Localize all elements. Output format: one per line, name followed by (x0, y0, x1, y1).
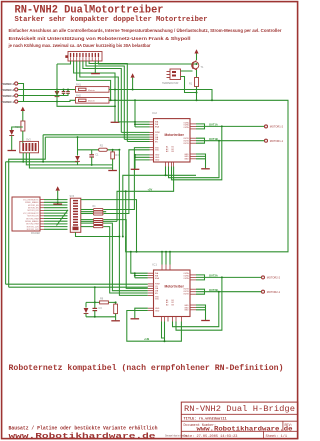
5V subckt2 rail (86, 287, 116, 304)
junction bus2 tap (94, 286, 96, 288)
capacitor C3 (93, 302, 103, 316)
diode D1 (55, 90, 60, 102)
svg-text:POWER-1: POWER-1 (1, 100, 14, 104)
svg-text:MOTOR2_PWM: MOTOR2_PWM (26, 224, 39, 226)
terminal X2-3 (1, 94, 18, 98)
wire SV2 pin1 (22, 153, 24, 162)
ground GND LED (8, 150, 17, 152)
wire R8 short row (81, 220, 117, 222)
svg-text:Roboternetz kompatibel (nach e: Roboternetz kompatibel (nach ermpfohlene… (9, 364, 284, 373)
junction rail R1 (196, 99, 198, 101)
supply arrow VCC 5V (131, 73, 135, 90)
svg-text:SENSE_ENABLE: SENSE_ENABLE (25, 220, 39, 223)
svg-text:Sheet: 1/1: Sheet: 1/1 (266, 434, 288, 439)
wire bus chain A (6, 135, 78, 284)
terminal X2-4 (1, 100, 18, 104)
svg-text:MOTOR2-2: MOTOR2-2 (267, 276, 281, 280)
junction h (165, 251, 167, 253)
wire SV2 pin3 (29, 153, 112, 168)
resistor R4 (93, 206, 104, 210)
wire SV2 pin2 subckt rail (26, 153, 77, 165)
ground GND subckt2 (94, 316, 120, 321)
svg-text:OUT1A: OUT1A (209, 123, 218, 127)
wire IC2 in group1 (118, 121, 149, 123)
wire SV1 pin4 bundle (80, 61, 119, 122)
wires IC3 to SV3 rows (44, 200, 68, 230)
svg-text:Bausatz / Platine oder bestück: Bausatz / Platine oder bestückte Variant… (9, 424, 159, 431)
svg-text:SPEED_ENABLE: SPEED_ENABLE (25, 201, 39, 204)
wire subckt bottom rail (78, 164, 113, 166)
supply arrow VCC T1 (194, 49, 198, 60)
junction subckt R3 top (112, 149, 114, 151)
junction b (134, 123, 136, 125)
svg-text:OUT1B: OUT1B (209, 137, 218, 141)
wire 5V feed down (119, 150, 147, 296)
wire IC2 gnd comb right (196, 154, 206, 168)
IC1 top pin stubs (162, 265, 170, 271)
svg-text:Motortr: Motortr (88, 89, 95, 92)
IC2 left pin stubs (150, 122, 154, 160)
svg-text:RN-DEF: RN-DEF (31, 232, 41, 235)
resistor R12 (114, 304, 118, 317)
junction cap b (67, 89, 69, 91)
svg-text:Motortr: Motortr (88, 100, 95, 103)
wires IC1 top to rail (162, 252, 170, 265)
junction sense pin (165, 174, 167, 176)
temperature sensor box (162, 69, 181, 85)
transistor T1 (192, 60, 204, 70)
svg-text:RN-VNH2 Dual H-Bridge: RN-VNH2 Dual H-Bridge (184, 404, 295, 414)
junction VCC row (57, 199, 59, 201)
svg-text:MOTOR2-1: MOTOR2-1 (267, 290, 281, 294)
svg-text:OUT2A: OUT2A (209, 274, 218, 278)
IC2 right pin stubs (190, 124, 196, 159)
resistor R3 (111, 152, 119, 165)
wire IC2 5V pin down (117, 167, 174, 252)
zener diode D4 (84, 302, 89, 316)
ground GND below SV1 (91, 73, 100, 75)
wire diagonal crossover (57, 210, 69, 226)
wire temp to T1 (181, 71, 197, 93)
wire bus chain B (9, 137, 46, 287)
wire terminal3 to caps (18, 95, 64, 97)
svg-text:RN2: RN2 (76, 95, 81, 98)
wire IC2 gnd pins (135, 155, 150, 169)
svg-text:POWER-4: POWER-4 (1, 82, 14, 86)
junction j (164, 340, 166, 342)
wires SV3 right rows (81, 210, 93, 227)
resistor R13 (94, 222, 104, 224)
wire IC2 pin EN (127, 141, 149, 143)
wire SV1 pin6 bundle (86, 61, 124, 139)
wire bus1 to IC1 (6, 283, 148, 285)
IC3 right pin stubs (40, 200, 44, 230)
junction chain rail (114, 99, 116, 101)
wire U loop taps (162, 322, 165, 342)
junction INA rail (130, 251, 132, 253)
svg-text:MOTOR1_PWM: MOTOR1_PWM (26, 218, 39, 220)
wire T1 emitter to R1 (196, 70, 198, 78)
wire OUT1B feedback (169, 141, 220, 178)
wire OUT2A comb (196, 275, 261, 280)
svg-text:POWER-3: POWER-3 (1, 88, 14, 92)
svg-text:GND: GND (184, 159, 189, 161)
junction i (169, 251, 171, 253)
IC1 left pin stubs (148, 273, 154, 310)
svg-text:+5V: +5V (148, 188, 153, 192)
resistor network RN1 (76, 84, 110, 93)
terminal MOTOR1-1 (265, 139, 284, 143)
svg-text:OUTB: OUTB (183, 143, 189, 145)
wire IC2 bottom sense (123, 167, 196, 237)
wire IC1 gnd left (135, 308, 148, 318)
wire aux horizontal (57, 102, 115, 107)
resistor R2 (99, 145, 108, 152)
wire main VS rail (109, 100, 288, 252)
svg-text:Starker sehr kompakter doppelt: Starker sehr kompakter doppelter Motortr… (15, 16, 208, 24)
svg-text:MOTOR1-2: MOTOR1-2 (270, 125, 284, 129)
junction sense corridor (122, 236, 124, 238)
wire SV3 bottom down (76, 232, 120, 236)
svg-text:MOTOR2_CUR: MOTOR2_CUR (27, 229, 40, 231)
svg-text:MOTOR1_CUR: MOTOR1_CUR (27, 226, 40, 228)
connector SV1 (65, 52, 102, 62)
wire SV1 pin2 to ground chain (74, 61, 115, 122)
IC2 bottom pin stubs (166, 162, 174, 167)
IC1 bottom pin stubs (162, 317, 182, 322)
junction subckt tap (77, 136, 79, 138)
wire OUT2B feedback (173, 292, 219, 327)
svg-text:Entwickelt mit Unterstützung v: Entwickelt mit Unterstützung von Roboter… (9, 36, 191, 41)
junction OUT2B (218, 291, 220, 293)
connector SV2 (20, 139, 39, 153)
wire R5 to bundle (104, 223, 148, 291)
IC2 motor driver (152, 111, 190, 162)
junction 5V corridor (125, 190, 127, 192)
capacitor C1 (89, 150, 99, 165)
junction a (134, 121, 136, 123)
resistor R9 (100, 298, 109, 304)
junction GND row (57, 201, 59, 203)
svg-text:OUTA: OUTA (183, 126, 189, 129)
terminal MOTOR1-2 (265, 125, 284, 129)
svg-text:www.Robotikhardware.de: www.Robotikhardware.de (197, 425, 293, 432)
junction row ext (136, 251, 138, 253)
svg-text:SV3: SV3 (70, 195, 75, 198)
svg-text:VDD: VDD (155, 299, 160, 301)
wire R6 to bundle (104, 227, 148, 293)
pin header SV3 (70, 195, 81, 232)
junction p3 rail (110, 99, 112, 101)
svg-text:MOTOR1_DIR: MOTOR1_DIR (27, 210, 39, 212)
ground GND SV3 (53, 203, 62, 205)
wire IC2 pin DIB (124, 138, 149, 140)
svg-text:MOTOR1-1: MOTOR1-1 (270, 139, 284, 143)
wire vertical net V+ (56, 64, 58, 90)
wire IC1 INA feed (131, 252, 148, 273)
svg-text:MOTOR1_EN: MOTOR1_EN (28, 205, 39, 207)
junction e (134, 272, 136, 274)
resistor R6 (94, 213, 104, 215)
terminal MOTOR2-2 (262, 276, 281, 280)
svg-text:MOTOR2_DIR: MOTOR2_DIR (27, 216, 39, 218)
wire SV1 pin7 bundle (89, 61, 127, 142)
ground GND subckt1 (108, 165, 117, 171)
wire OUT2A feedback (176, 277, 222, 330)
wire OUT2B comb (196, 289, 261, 294)
ground GND mid (111, 121, 120, 123)
IC1 motor driver (152, 263, 190, 317)
wire subckt2 bottom (86, 316, 116, 318)
supply arrow VCC SV3 (56, 186, 60, 190)
junction f (134, 275, 136, 277)
junction subckt bottom (91, 164, 93, 166)
wire R5 short row (81, 211, 106, 213)
terminal X2-2 (1, 88, 18, 92)
resistor R8 (94, 220, 104, 222)
svg-text:A3: A3 (166, 150, 168, 153)
junction g (161, 251, 163, 253)
resistor network RN2 (76, 95, 110, 104)
wire IC1 top group (135, 273, 148, 278)
svg-text:OUTA: OUTA (183, 277, 189, 280)
svg-text:VCC_INT/RN-MOT1: VCC_INT/RN-MOT1 (23, 199, 38, 201)
wire terminal2 to RN1 (18, 89, 76, 91)
wire terminal4 to RN2 (18, 100, 76, 101)
wire OUT1A feedback (172, 126, 222, 179)
svg-text:VDD: VDD (155, 150, 160, 152)
supply arrow VCC left (21, 107, 25, 121)
svg-text:Motortreiber: Motortreiber (165, 133, 185, 137)
svg-text:B3: B3 (172, 304, 174, 306)
zener diode D2 (75, 150, 80, 165)
resistor R7 (94, 219, 104, 221)
svg-text:B3: B3 (172, 151, 174, 153)
svg-text:TITLE: rn_vnh2dual11: TITLE: rn_vnh2dual11 (184, 416, 227, 421)
svg-text:RN1: RN1 (76, 84, 81, 87)
wire OUT1B comb (196, 138, 264, 143)
ground GND IC2 left (131, 168, 140, 170)
junction 5V feed (118, 149, 120, 151)
svg-text:Date: 27.05.2005 14:03:23: Date: 27.05.2005 14:03:23 (184, 435, 238, 439)
wire R4 to bundle (104, 220, 148, 289)
svg-text:MOTOR2_EN: MOTOR2_EN (28, 208, 39, 210)
wire header row ext (81, 200, 137, 252)
resistor R10 (15, 121, 25, 143)
wire rail to IC2 pullups (134, 100, 136, 127)
wire SV1 pin3 to rail (77, 61, 111, 100)
wire bus2 to IC1 (9, 286, 148, 288)
svg-text:IC1: IC1 (152, 263, 157, 267)
wire VCC to SV3 (57, 191, 59, 204)
svg-text:GND: GND (184, 310, 189, 312)
svg-text:TEMPERATUR: TEMPERATUR (162, 82, 179, 85)
capacitor C5 (62, 90, 66, 96)
wire IC1 gnd comb right (196, 305, 206, 320)
junction SV3 bottom (118, 236, 120, 238)
wire IC2 pin CS long (43, 134, 149, 136)
wire IC2 pullup link (135, 122, 150, 127)
ground GND IC1 left (131, 318, 140, 320)
junction d (134, 156, 136, 158)
junction pin4/v57 (56, 101, 58, 103)
svg-text:POWER-2: POWER-2 (1, 94, 14, 98)
svg-text:RN-VNH2 DualMotortreiber: RN-VNH2 DualMotortreiber (15, 5, 164, 17)
svg-text:VCC_INT/RN-MOT2: VCC_INT/RN-MOT2 (23, 213, 38, 215)
wire IC2 VDD2 nested (104, 150, 150, 214)
wire OUT1A comb (196, 124, 264, 129)
junction OUT1A (221, 125, 223, 127)
resistor R14 (94, 226, 104, 228)
junction top right (196, 63, 198, 65)
IC1 right pin stubs (190, 275, 196, 310)
terminal X2-1 (1, 82, 18, 86)
terminal MOTOR2-1 (262, 290, 281, 294)
resistor R1 (189, 78, 199, 101)
svg-text:A3: A3 (166, 303, 168, 306)
wire terminal1 down (18, 84, 24, 102)
svg-text:+UB: +UB (144, 337, 149, 341)
ground GND IC2 right (201, 168, 210, 170)
junction cap a (63, 89, 65, 91)
wire RN1 out (109, 90, 212, 101)
wire SV1 pin10 long top (98, 61, 196, 64)
wire SV1 pin9 to ground (94, 61, 96, 73)
junction OUT1B (218, 140, 220, 142)
junction SV2 p1 (22, 161, 24, 163)
wire 5V subckt top rail (78, 137, 120, 152)
capacitor C6 (64, 90, 70, 96)
wire IC2 pin DIA long (45, 136, 149, 138)
svg-text:Einfacher Anschluss an alle Co: Einfacher Anschluss an alle Controllerbo… (9, 28, 282, 33)
wire SV1 pin5 bundle (83, 61, 121, 132)
title block frame (181, 402, 298, 439)
junction c (134, 154, 136, 156)
junction diode top (56, 89, 58, 91)
svg-text:OUTB: OUTB (183, 294, 189, 296)
IC3 logic box (12, 197, 41, 235)
svg-text:www.Robotikhardware.de: www.Robotikhardware.de (9, 433, 157, 441)
wire IC2 pin PWM (121, 131, 149, 133)
junction rail RN1 (211, 99, 213, 101)
svg-text:GND: GND (155, 310, 160, 312)
junction OUT2A (221, 276, 223, 278)
wire IC1 U loop (127, 311, 182, 342)
ground GND IC1 right (201, 320, 210, 322)
svg-text:IC2: IC2 (152, 111, 157, 115)
LED D3 (9, 127, 22, 150)
svg-text:je nach Kühlung max. zweimal c: je nach Kühlung max. zweimal ca. 4A Daue… (7, 43, 150, 48)
junction rail pullup (134, 99, 136, 101)
svg-text:OUT2B: OUT2B (209, 288, 218, 292)
junction chain row (114, 89, 116, 91)
junction aux (114, 105, 116, 107)
wire IC2 VDD1 nested (104, 148, 150, 210)
svg-text:Motortreiber: Motortreiber (165, 285, 185, 289)
svg-text:GND: GND (155, 160, 160, 162)
wire SV1 pin1 to node (57, 61, 71, 64)
resistor R5 (94, 211, 104, 213)
